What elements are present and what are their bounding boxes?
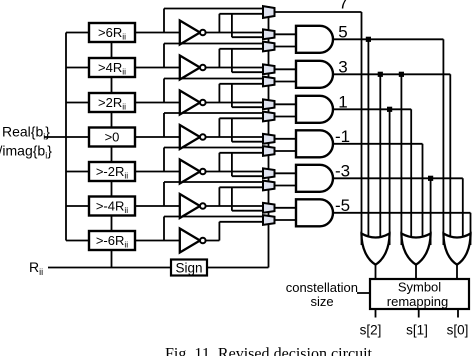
svg-text:Real{bi}: Real{bi}: [2, 124, 50, 142]
svg-text:3: 3: [338, 57, 347, 76]
svg-text:/imag{bi}: /imag{bi}: [0, 143, 52, 161]
svg-text:-1: -1: [335, 127, 350, 146]
svg-text:>0: >0: [105, 130, 120, 145]
svg-text:>-2Rii: >-2Rii: [96, 164, 128, 181]
svg-text:Sign: Sign: [175, 261, 202, 276]
svg-text:s[1]: s[1]: [406, 323, 428, 338]
svg-text:>4Rii: >4Rii: [98, 60, 126, 77]
svg-text:7: 7: [339, 0, 348, 12]
svg-text:size: size: [310, 294, 333, 309]
svg-text:Symbol: Symbol: [398, 280, 441, 295]
svg-text:5: 5: [338, 22, 347, 41]
svg-text:Fig. 11. Revised decision circ: Fig. 11. Revised decision circuit: [165, 346, 373, 356]
svg-text:>-4Rii: >-4Rii: [96, 199, 128, 216]
svg-text:>2Rii: >2Rii: [98, 95, 126, 112]
svg-text:s[0]: s[0]: [447, 323, 469, 338]
svg-text:-5: -5: [335, 196, 350, 215]
svg-text:constellation: constellation: [286, 280, 358, 295]
svg-text:1: 1: [338, 92, 347, 111]
svg-text:>6Rii: >6Rii: [98, 25, 126, 42]
svg-text:>-6Rii: >-6Rii: [96, 233, 128, 250]
svg-text:remapping: remapping: [387, 294, 448, 309]
svg-text:s[2]: s[2]: [360, 323, 382, 338]
svg-text:-3: -3: [335, 161, 350, 180]
